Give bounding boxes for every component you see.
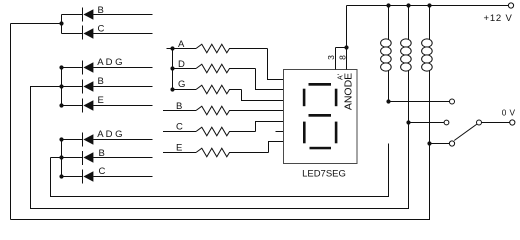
node junction top group — [59, 21, 63, 25]
svg-text:B: B — [99, 148, 105, 159]
svg-text:3: 3 — [326, 55, 336, 60]
contact A D G (bottom group) — [62, 129, 153, 145]
7-segment display U1 body — [284, 70, 358, 164]
contact group SW-B dashed link line — [82, 61, 84, 113]
terminal T3 — [449, 141, 454, 146]
svg-text:B: B — [98, 76, 104, 87]
wire bottom group common vertical — [61, 140, 63, 177]
terminal T2 — [444, 120, 449, 125]
inductor L2 — [401, 6, 412, 123]
svg-text:C: C — [98, 24, 105, 35]
wire left bus vertical — [10, 24, 12, 220]
switch pole terminal — [477, 120, 482, 125]
contact group SW-C dashed link line — [82, 133, 84, 184]
terminal 0V — [510, 120, 515, 125]
contact B (bottom group) — [51, 148, 153, 163]
wire pole to 0V — [482, 122, 510, 124]
resistor G — [173, 79, 242, 94]
switch arm — [454, 124, 477, 140]
contact group SW-A dashed link line — [82, 8, 84, 41]
svg-text:C: C — [99, 166, 106, 177]
pin 8 stub — [346, 48, 348, 70]
contact E (middle group) — [62, 95, 153, 111]
wire A to pin1 — [268, 49, 284, 80]
segment d (bottom bar) — [310, 147, 332, 150]
segment e (lower-left) — [303, 122, 306, 144]
node junction anode — [344, 45, 348, 49]
resistor B — [163, 101, 284, 115]
terminal T1 — [450, 99, 455, 104]
svg-text:B: B — [98, 5, 104, 16]
wire C to pin5 — [256, 122, 284, 132]
node junctions on rail — [386, 3, 390, 7]
wire bottom return to coil L3 — [11, 144, 430, 220]
segment f (upper-left) — [303, 89, 306, 107]
svg-text:B: B — [176, 101, 182, 112]
wire branch 2 — [409, 122, 445, 124]
wire G to pin3 — [242, 90, 284, 101]
svg-text:E: E — [176, 142, 182, 153]
resistor D — [173, 59, 256, 73]
svg-text:ANODE: ANODE — [342, 73, 354, 110]
svg-text:C: C — [176, 121, 183, 132]
resistor A — [167, 39, 268, 53]
svg-text:A D G: A D G — [97, 129, 122, 140]
segment a (top bar) — [309, 83, 332, 86]
wire branch 1 — [389, 101, 450, 103]
node junction L3 branch — [427, 141, 431, 145]
wire from middle group to coil L2 — [31, 87, 409, 209]
contact C (bottom group) — [62, 166, 153, 182]
contact B (top group) — [62, 5, 153, 20]
wire from top group to left bus — [11, 23, 62, 25]
svg-text:0 V: 0 V — [502, 107, 516, 117]
wire top group common vertical — [61, 15, 63, 34]
pin 6 stub (unconnected) — [276, 131, 284, 133]
node junction L2 branch — [406, 120, 410, 124]
svg-text:E: E — [98, 95, 104, 106]
pin 3 stub — [335, 48, 337, 70]
wire from bottom group to coil L1 — [51, 144, 389, 197]
inductor L1 — [381, 6, 392, 102]
svg-text:+12 V: +12 V — [484, 13, 513, 24]
wire resistor bus vertical A-D-G — [172, 49, 174, 90]
segment g (middle bar) — [309, 114, 332, 117]
svg-text:A D G: A D G — [97, 57, 122, 68]
contact C (top group) — [62, 24, 153, 39]
wire pins 3-8 tie — [336, 47, 347, 49]
resistor E — [163, 142, 269, 157]
node junction L1 branch — [386, 99, 390, 103]
svg-text:G: G — [178, 79, 185, 90]
wire +12V rail — [347, 5, 509, 7]
node junctions resistor bus — [170, 46, 174, 50]
inductor L3 — [422, 6, 433, 144]
svg-text:LED7SEG: LED7SEG — [302, 168, 346, 179]
segment b (upper-right) — [335, 89, 338, 107]
node junctions middle group — [59, 65, 63, 69]
wire branch 3 — [430, 143, 450, 145]
terminal +12V — [508, 3, 513, 8]
node junctions bottom group — [59, 137, 63, 141]
wire D to pin2 — [256, 69, 284, 90]
contact A D G (middle group) — [62, 57, 153, 73]
segment c (lower-right) — [335, 122, 338, 144]
svg-text:8: 8 — [337, 55, 347, 60]
wire middle group common vertical — [61, 68, 63, 106]
wire E to pin7 — [269, 142, 284, 153]
svg-text:D: D — [178, 59, 185, 70]
svg-text:A: A — [178, 39, 185, 50]
contact B (middle group) — [62, 76, 153, 92]
wire anode to +12V rail — [346, 6, 348, 48]
resistor C — [163, 121, 256, 135]
